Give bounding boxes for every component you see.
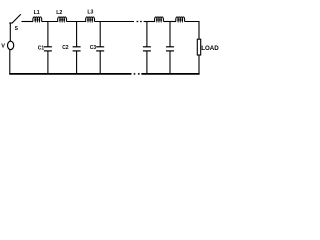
capacitor C2 [73, 47, 81, 75]
top rail ellipsis dots [137, 21, 142, 23]
svg-text:L1: L1 [34, 10, 40, 16]
inductor L3 [86, 17, 95, 22]
wire top rail segment 6 [164, 21, 177, 23]
bottom rail wire left segment [9, 73, 131, 75]
wire top rail segment 1 [22, 21, 34, 23]
wire top rail segment 3 [67, 21, 87, 23]
inductor L2 [58, 17, 67, 22]
capacitor C3 [96, 47, 104, 75]
inductor L1 [33, 17, 42, 22]
node C5 drop wire [169, 22, 171, 47]
svg-text:L3: L3 [87, 10, 93, 16]
node C1 drop wire [47, 22, 49, 47]
switch S [9, 14, 21, 23]
wire top rail segment 4 [95, 21, 135, 23]
bottom rail wire right segment [141, 73, 199, 75]
svg-text:C3: C3 [90, 45, 97, 51]
svg-text:S: S [15, 26, 19, 32]
inductor L5 (unlabeled) [176, 17, 185, 22]
load resistor [197, 39, 200, 55]
capacitor C1 [44, 47, 52, 75]
svg-text:C1: C1 [38, 46, 45, 52]
node C3 drop wire [99, 22, 101, 47]
node C4 drop wire [146, 22, 148, 47]
svg-text:C2: C2 [62, 45, 69, 51]
svg-text:LOAD: LOAD [201, 45, 219, 52]
wire top rail segment 2 [42, 21, 59, 23]
bottom rail ellipsis dots [134, 73, 140, 75]
wire right rail bottom (resistor to bottom rail) [198, 55, 200, 74]
inductor L4 (unlabeled) [155, 17, 164, 22]
wire left rail bottom (source to bottom rail) [9, 50, 11, 75]
svg-text:L2: L2 [56, 10, 62, 16]
node C2 drop wire [76, 22, 78, 47]
wire left rail top (source to switch) [9, 23, 11, 41]
capacitor C5 (unlabeled) [166, 47, 174, 75]
voltage source V [8, 41, 14, 49]
wire top rail segment 5 [144, 21, 155, 23]
svg-text:V: V [1, 44, 5, 50]
wire top rail segment 7 to right corner [185, 22, 200, 40]
capacitor C4 (unlabeled) [143, 47, 151, 75]
